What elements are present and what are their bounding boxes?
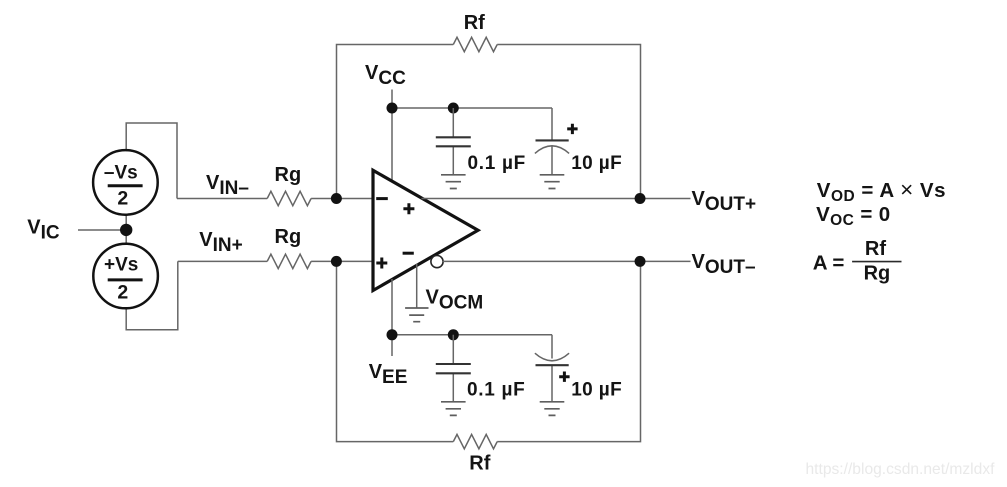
svg-text:10 µF: 10 µF: [571, 380, 622, 401]
wire: VCC stub down to op-amp: [391, 90, 393, 183]
svg-text:Rg: Rg: [275, 226, 302, 248]
node VIC: [120, 224, 132, 236]
op-amp U1: [373, 170, 478, 290]
svg-text:0.1 µF: 0.1 µF: [467, 380, 525, 401]
svg-text:2: 2: [117, 282, 128, 304]
wire: VOUT+ line: [422, 198, 691, 200]
node: VOUT+ junction: [635, 193, 646, 204]
node: VCC rail at C1: [448, 103, 459, 114]
svg-text:–Vs: –Vs: [104, 162, 138, 183]
voltage source V2 (+Vs/2): [93, 244, 158, 309]
svg-text:A =: A =: [813, 252, 845, 275]
polarity + of C2: [567, 124, 577, 134]
svg-text:VOC = 0: VOC = 0: [816, 203, 891, 229]
svg-text:VCC: VCC: [365, 62, 406, 89]
ground: under C1: [441, 175, 466, 189]
wire: VOCM stub: [416, 264, 418, 309]
svg-text:Rf: Rf: [464, 12, 485, 34]
wire: VEE rail: [392, 334, 552, 336]
svg-text:+Vs: +Vs: [104, 255, 138, 276]
ground: under C4: [540, 402, 565, 416]
wire: upper feedback left riser: [337, 45, 454, 199]
ground: under C2: [540, 175, 565, 189]
ground: under C3: [441, 402, 466, 416]
op-amp output+ mark: [403, 203, 414, 214]
svg-text:VIC: VIC: [27, 216, 60, 243]
equation A = Rf/Rg: [813, 238, 902, 285]
node: VCC rail left: [387, 103, 398, 114]
resistor Rf (bottom): [453, 434, 497, 448]
wire: source top loop to VIN- line: [126, 123, 177, 199]
node: inverting input junction: [331, 193, 342, 204]
capacitor C4 10uF (bottom, polarized): [535, 335, 569, 402]
capacitor C2 10uF (top, polarized): [535, 108, 569, 175]
wire: VEE stub from op-amp to rail and label stub: [391, 279, 393, 356]
wire: VIC lead: [78, 229, 121, 231]
wire: link between sources: [125, 214, 127, 246]
resistor Rf (top): [453, 37, 497, 51]
resistor Rg (lower): [267, 254, 311, 268]
capacitor C1 0.1uF (top): [436, 108, 471, 175]
node: VEE rail at C3: [448, 329, 459, 340]
svg-text:VOUT–: VOUT–: [692, 251, 756, 278]
svg-text:VOD = A × Vs: VOD = A × Vs: [817, 177, 946, 205]
wire: VCC rail: [392, 107, 552, 109]
voltage source V1 (-Vs/2): [93, 150, 158, 215]
wire: source bottom loop to VIN+ line: [126, 261, 178, 329]
capacitor C3 0.1uF (bottom): [436, 335, 471, 402]
svg-text:Rf: Rf: [865, 238, 886, 260]
node: VEE rail left: [387, 329, 398, 340]
wire: lower feedback left riser: [337, 261, 454, 441]
svg-text:VOCM: VOCM: [426, 287, 484, 314]
svg-text:Rf: Rf: [469, 453, 490, 475]
wire: lower feedback right riser: [497, 261, 640, 441]
svg-text:0.1 µF: 0.1 µF: [468, 153, 526, 174]
polarity + of C4: [559, 372, 569, 382]
svg-text:2: 2: [117, 187, 128, 209]
svg-text:Rg: Rg: [275, 164, 302, 186]
op-amp non-inverting input mark: [376, 258, 387, 269]
svg-text:VEE: VEE: [369, 361, 408, 388]
wire: upper feedback right riser: [497, 45, 640, 199]
svg-text:https://blog.csdn.net/mzldxf: https://blog.csdn.net/mzldxf: [806, 461, 996, 478]
node: non-inverting input junction: [331, 256, 342, 267]
wire VIN+: [178, 260, 372, 262]
svg-text:Rg: Rg: [864, 263, 891, 285]
svg-text:VIN+: VIN+: [199, 229, 242, 256]
resistor Rg (upper): [267, 191, 311, 205]
node: VOUT- junction: [635, 256, 646, 267]
wire: VOUT- line: [443, 260, 691, 262]
svg-text:VOUT+: VOUT+: [692, 188, 757, 215]
op-amp inverting input mark: [376, 197, 388, 200]
op-amp output- mark: [403, 252, 414, 255]
ground: VOCM: [405, 308, 428, 322]
svg-text:10 µF: 10 µF: [571, 153, 622, 174]
wire VIN-: [177, 198, 372, 200]
svg-text:VIN–: VIN–: [206, 172, 249, 199]
op-amp inverted output bubble: [431, 256, 443, 268]
